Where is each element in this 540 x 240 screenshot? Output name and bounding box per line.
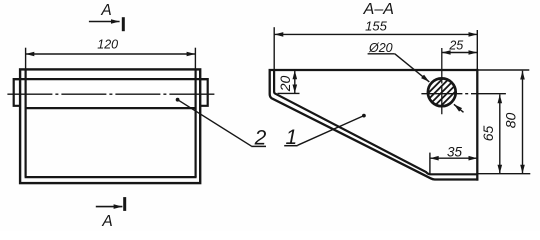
svg-text:80: 80 (502, 113, 518, 129)
dimension 35 line (430, 157, 477, 159)
plate right edge (476, 69, 478, 181)
left tab (14, 79, 20, 106)
svg-text:25: 25 (448, 38, 463, 52)
upper band top line (14, 78, 208, 80)
extension of bottom edge (for 65/80) (478, 173, 530, 175)
extension line right (155/25/80) (476, 30, 478, 70)
extension line left of 120 (25, 48, 27, 69)
dimension 80 line (522, 71, 524, 174)
right tab (200, 79, 208, 106)
hole vertical centerline / 25 extension (441, 48, 443, 114)
Ø20 underline (368, 53, 395, 55)
body outer rectangle (20, 69, 200, 183)
svg-text:20: 20 (277, 76, 293, 93)
svg-text:1: 1 (285, 126, 297, 149)
dimension 120 line (26, 53, 196, 55)
extension of top edge (for 80) (478, 69, 529, 71)
extension line for 35 (429, 153, 431, 174)
svg-text:120: 120 (97, 38, 118, 52)
centerline (7, 93, 215, 95)
extension line right of 120 (194, 48, 196, 69)
leader to part 1 (284, 114, 366, 146)
Ø20 far-side arrow (454, 104, 464, 112)
extension line for 20 (278, 92, 300, 94)
svg-text:35: 35 (447, 144, 463, 159)
leader to part 2 (176, 98, 266, 147)
svg-text:65: 65 (480, 126, 496, 142)
hole hatching (426, 57, 458, 127)
Ø20 leader with arrow (395, 54, 430, 82)
body inner left wall (25, 69, 27, 177)
svg-text:Ø20: Ø20 (368, 41, 393, 55)
section arrow A (top) (89, 17, 123, 31)
plate outer contour (270, 70, 479, 180)
upper band bottom line (26, 107, 196, 109)
dimension 20 (left) line (294, 70, 296, 93)
dimension 65 line (499, 95, 501, 174)
body inner right wall (195, 69, 197, 177)
section arrow A (bottom) (96, 197, 125, 211)
svg-text:A: A (100, 2, 111, 19)
hole circle (428, 78, 456, 106)
extension line left of 155 (273, 27, 275, 70)
body inner bottom wall (25, 176, 197, 178)
dimension 155 line (275, 33, 478, 35)
svg-text:155: 155 (365, 18, 387, 33)
svg-text:2: 2 (254, 127, 267, 150)
plate inner contour (274, 69, 477, 174)
dimension 25 line (442, 52, 478, 54)
hole horizontal centerline (421, 93, 506, 95)
svg-text:A–A: A–A (363, 1, 394, 18)
svg-text:A: A (101, 213, 112, 230)
